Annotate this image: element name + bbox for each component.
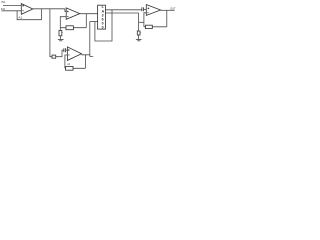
svg-text:A1: A1	[18, 16, 22, 20]
wire branch to U4 minus	[139, 21, 144, 23]
input wire IN1	[3, 5, 21, 7]
wire U4 minus node	[144, 13, 146, 27]
U1 plus	[22, 5, 24, 7]
resistor R5 U5 feedback	[66, 67, 73, 71]
wire U5 feedback bottom	[65, 67, 86, 69]
svg-text:0: 0	[102, 26, 104, 30]
op-amp U4	[146, 5, 160, 16]
svg-text:IN1: IN1	[1, 0, 6, 4]
svg-text:OUT: OUT	[170, 8, 176, 11]
wire U2 output	[80, 13, 98, 15]
plus minus markers	[22, 5, 149, 55]
op-amp U5	[67, 47, 81, 61]
wire U5 output	[81, 55, 93, 57]
wire U2 feedback bottom	[60, 27, 86, 29]
U5 minus	[68, 54, 70, 56]
value tick R3	[61, 31, 64, 33]
U2 plus	[67, 11, 69, 13]
wire U4 feedback right	[166, 10, 168, 27]
wire U4 output	[161, 9, 175, 11]
U2 minus	[67, 16, 69, 18]
resistor R4 input	[52, 55, 56, 58]
svg-text:IN2: IN2	[1, 7, 6, 11]
wire long drop node A	[50, 9, 52, 57]
wire x112 vertical	[95, 10, 112, 41]
op-amp U2	[66, 8, 80, 19]
U4 plus	[148, 7, 150, 9]
U5 plus	[68, 49, 70, 51]
ground G2	[136, 40, 142, 41]
wire chip left pin 2	[90, 21, 98, 23]
wire U2 feedback right	[85, 14, 87, 28]
capacitor C1	[64, 48, 66, 52]
wire bus x89.8	[89, 22, 91, 55]
svg-text:A2: A2	[67, 63, 71, 66]
wire C1 to U5 plus	[66, 49, 68, 51]
wire U1 feedback loop	[17, 9, 41, 20]
value tick R7	[140, 32, 143, 34]
wire U1 output main	[33, 8, 65, 10]
wire pinB drop	[138, 13, 140, 31]
wire R7 to ground	[138, 35, 140, 39]
op-amp U1	[21, 4, 33, 15]
U1 minus	[22, 10, 24, 12]
wire C2 to U4 plus	[144, 9, 147, 11]
wire R4 to C1 jog	[56, 50, 64, 57]
input wire IN2	[2, 10, 22, 12]
wire U5 feedback right	[84, 55, 86, 69]
wire chip pin B	[106, 12, 139, 14]
wire chip pin A	[106, 9, 142, 11]
resistor R2 U2 feedback	[66, 26, 73, 30]
wire U2 inverting input	[60, 17, 66, 28]
wire U4 feedback bottom	[144, 26, 167, 28]
resistor R3 ground leg	[59, 31, 62, 36]
wire R3 to ground	[59, 36, 61, 40]
resistor R7 ground leg	[137, 31, 140, 35]
IC U3 box	[98, 5, 106, 29]
wire U5 inverting input	[65, 55, 68, 68]
IC U3 vertical label	[102, 5, 105, 30]
resistor R6 U4 feedback	[146, 25, 153, 28]
wire R3 top lead	[59, 28, 61, 31]
U4 minus	[147, 12, 149, 14]
wire jog to U2 plus	[65, 9, 66, 12]
ground G1	[58, 40, 64, 41]
capacitor C2	[142, 7, 144, 11]
